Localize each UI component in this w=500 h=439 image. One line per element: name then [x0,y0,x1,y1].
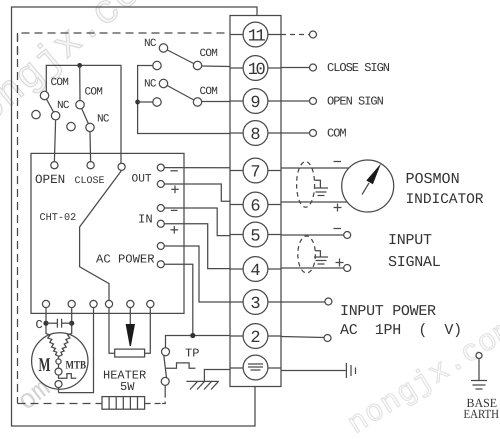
switch S3 pole [153,61,161,69]
wire OUT+ to terminal 6 [161,184,230,201]
junction capacitor left [43,321,48,326]
cable shield ellipse (input pair) [298,236,316,273]
svg-text:2: 2 [250,329,260,348]
terminal 11 [230,22,281,47]
node input power L [325,298,332,305]
resistor R1 [115,349,145,357]
wire TP branch to terminal 2 [166,336,231,348]
plus sign [171,186,179,194]
minus sign [170,170,177,172]
svg-text:NC: NC [97,114,110,126]
svg-text:COM: COM [51,77,69,89]
terminal 7 [230,158,281,183]
svg-text:9: 9 [250,94,260,113]
svg-text:CLOSE: CLOSE [75,176,105,187]
wire terminal 7 to indicator minus [281,167,349,169]
wire junction to pole [138,101,153,103]
heater element RH [102,397,145,410]
svg-text:3: 3 [250,295,260,314]
wire pin M1 to motor [45,308,47,334]
wire AC power L to terminal 3 [161,246,230,302]
meter P1 position indicator [342,160,394,212]
TP pulse glyph [166,363,195,368]
svg-text:OUT: OUT [132,174,152,186]
junction on bus [135,100,140,105]
enclosure dashed boundary left [17,33,19,404]
switch S2 common contact [76,101,84,109]
wire OUT- to terminal 7 [161,167,230,169]
pin M1 [42,300,49,307]
node close-sign terminal [310,31,317,38]
wire terminal 11 spare (dashed) [281,34,310,36]
controller box CHT-02 [31,153,184,313]
terminal 5 [230,222,281,247]
svg-text:COM: COM [85,87,103,99]
svg-text:TP: TP [185,347,199,361]
minus sign [334,161,342,163]
watermark bottom-left tail [13,375,57,419]
switch S3 COM contact [193,61,201,69]
svg-text:5: 5 [250,228,260,247]
svg-text:AC POWER: AC POWER [96,253,155,267]
spare contact [32,110,40,118]
terminal 6 [230,192,281,217]
svg-text:om: om [13,375,57,419]
thermal pulse glyph [59,374,77,379]
wire terminal 4 to input signal plus [281,267,344,269]
wire pin M2 to motor [71,308,73,334]
junction capacitor right [69,321,74,326]
svg-text:MTB: MTB [66,360,87,372]
terminal earth [230,355,281,380]
wire TP dashed to enclosure [161,393,165,404]
pin M3 [90,300,97,307]
wire pin H1 to resistor [109,308,115,354]
chassis ground [186,381,218,389]
wire S1 NC to OPEN [54,120,55,162]
svg-text:NC: NC [144,79,157,91]
limit switch group 2 bus [138,66,230,134]
wire bus to switch S2 [79,65,81,100]
plus sign [334,204,342,212]
junction TP/ACN [190,333,195,338]
wire pin M3 down right of motor [59,308,94,393]
svg-text:COM: COM [200,86,218,98]
capacitor C1 [46,319,72,328]
svg-text:4: 4 [250,262,260,281]
switch S2 blade [80,105,90,128]
wire TP bottom [164,385,166,392]
shield ground tap [314,251,328,264]
wire terminal 10 to CLOSE SIGN [281,67,310,69]
minus sign [334,228,342,230]
label INPUT SIGNAL [388,232,441,271]
switch S1 NC contact [51,112,59,120]
thermal contact a [56,359,61,364]
wire terminal 8 to COM [281,132,310,134]
meter needle [362,164,381,195]
wire terminal earth to ground [281,370,346,372]
switch S3 blade [164,48,198,66]
label POSMON INDICATOR [406,170,484,208]
wire AC power N to terminal 2 [161,264,193,335]
svg-text:COM: COM [200,48,218,60]
switch S4 blade [164,84,198,103]
pin OPEN [51,162,58,169]
wire S2 NC to CLOSE [89,132,92,162]
thermal contact b [55,368,62,375]
switch S1 common contact [40,91,48,99]
svg-text:CLOSE SIGN: CLOSE SIGN [327,61,390,75]
switch S4 NC contact [159,79,167,87]
wire earth terminal to chassis [204,370,230,382]
wire IN- to terminal 5 [161,208,230,236]
wire S4 COM to terminal 9 [202,101,230,103]
switch S4 COM contact [193,98,201,106]
motor M1 circle [32,333,88,389]
svg-text:IN: IN [138,213,153,227]
thermal contact c [55,381,62,388]
wire motor thermal to bottom [58,388,60,393]
terminal 9 [230,89,281,114]
base earth ground symbol [471,359,487,390]
svg-text:POSMON: POSMON [406,170,460,188]
plus sign [171,226,179,234]
svg-text:OPEN: OPEN [35,173,65,187]
svg-text:AC 1PH ( V): AC 1PH ( V) [340,322,462,339]
enclosure dashed boundary bottom [18,403,103,405]
node input minus [344,232,351,239]
svg-text:5W: 5W [120,380,135,394]
svg-text:INPUT: INPUT [388,232,432,249]
svg-text:CHT-02: CHT-02 [40,213,77,224]
svg-text:7: 7 [250,164,260,183]
pin H1 [105,300,112,307]
switch TP top contact [162,348,170,356]
svg-text:8: 8 [250,126,260,145]
watermark top-left [0,0,170,150]
junction on bus [77,63,82,68]
switch S4 pole [153,98,161,106]
pin OUT+ [157,181,164,188]
switch S2 NC contact [86,123,94,131]
shield ground tap [314,180,328,195]
terminal 3 [230,290,281,315]
pin CLOSE [87,162,94,169]
pin IN+ [157,220,164,227]
spare contact [67,122,75,130]
enclosure dashed boundary top [18,33,231,55]
earth ground symbol (sideways) [346,363,355,378]
minus sign [171,209,178,211]
svg-text:INDICATOR: INDICATOR [406,192,484,208]
switch TP bottom contact [161,377,169,385]
wire terminal 6 to indicator plus [281,201,348,203]
svg-text:11: 11 [248,28,266,47]
watermark bottom-right [342,313,500,439]
svg-text:C: C [36,318,43,332]
terminal 10 [230,56,281,81]
pin AC in [118,163,125,170]
svg-text:6: 6 [250,198,260,217]
svg-text:NC: NC [57,100,70,112]
pin IN- [157,205,164,212]
plus sign [336,259,344,267]
wire terminal 9 to OPEN SIGN [281,100,310,102]
svg-text:COM: COM [327,127,346,141]
node input plus [344,265,351,272]
motor winding left [46,334,59,357]
wire IN+ to terminal 4 [161,224,230,269]
pin H2 [127,300,134,307]
svg-text:nongjx.com: nongjx.com [0,0,170,150]
base earth terminal node [476,353,482,359]
pin M2 [68,300,75,307]
svg-text:INPUT POWER: INPUT POWER [340,303,436,320]
wire pin H2 to arrow [129,308,131,324]
wire terminal 5 to input signal minus [281,234,344,236]
terminal 2 [230,324,281,349]
wire pin H3 to resistor [145,308,151,354]
cable shield ellipse (indicator pair) [297,162,315,208]
wire terminal 3 to input power [281,301,325,303]
svg-text:M: M [39,355,51,376]
terminal 4 [230,257,281,282]
pin H3 [147,300,154,307]
wire S3 COM to terminal 10 [202,65,230,68]
terminal 8 [230,121,281,146]
terminal strip TB1 [230,16,281,387]
limit switch group 1 common bus [46,65,121,163]
switch S1 blade [45,96,56,116]
node input power N [324,335,331,342]
motor winding right [59,334,72,357]
label BASE EARTH [464,396,500,421]
svg-text:SIGNAL: SIGNAL [388,254,441,271]
pin AC N [157,261,164,268]
pin AC L [157,243,164,250]
svg-text:OPEN SIGN: OPEN SIGN [327,95,384,109]
arrow wiper [126,324,135,346]
svg-text:NC: NC [144,38,157,50]
wire a-b [58,356,60,359]
wire heater to TP dashed [145,403,161,405]
switch S3 NC contact [159,44,167,52]
wire terminal 2 to input power [281,337,324,338]
wire outer earth loop [12,7,258,426]
wire internal AC to heater pin [80,170,122,300]
TP blade [164,356,167,378]
svg-text:EARTH: EARTH [464,407,500,421]
pin OUT- [157,164,164,171]
svg-text:10: 10 [248,61,266,80]
